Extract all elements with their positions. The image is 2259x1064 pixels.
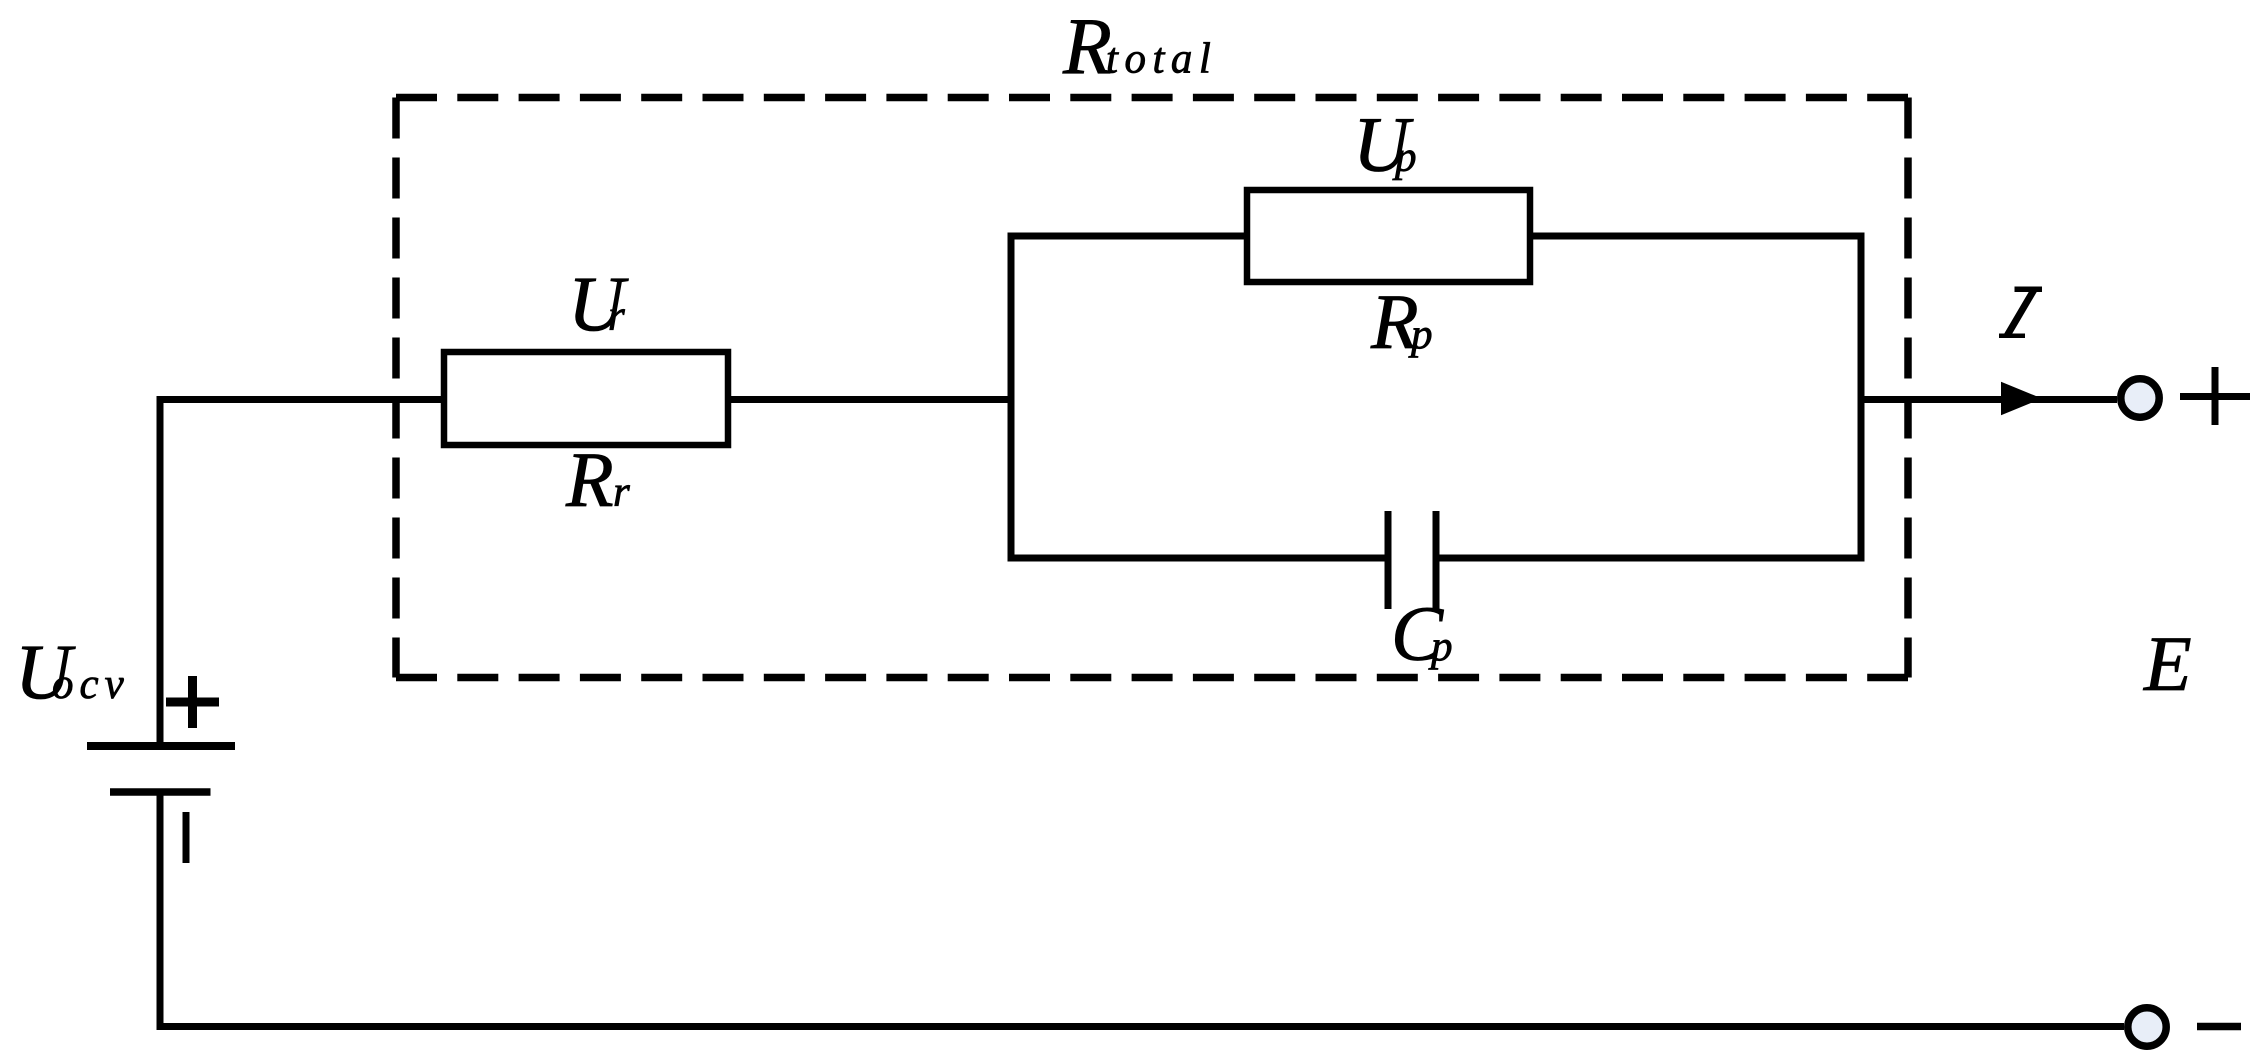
- label Up: [1353, 101, 1417, 188]
- svg-text:total: total: [1106, 36, 1217, 83]
- resistor Rr: [444, 352, 728, 445]
- RC loop left vertical wire: [1008, 233, 1015, 562]
- dashed box R_total top edge: [396, 94, 1908, 102]
- label I: [1999, 287, 2042, 339]
- svg-text:E: E: [2143, 620, 2192, 707]
- svg-text:p: p: [1408, 311, 1433, 358]
- RC loop right vertical wire: [1858, 233, 1865, 562]
- svg-text:r: r: [613, 469, 630, 516]
- current arrow I: [2001, 382, 2042, 415]
- dashed box R_total left edge: [392, 98, 400, 678]
- resistor Rp: [1247, 190, 1530, 282]
- svg-text:r: r: [608, 293, 625, 340]
- svg-text:R: R: [1062, 3, 1112, 91]
- svg-text:p: p: [1428, 623, 1453, 670]
- dashed box R_total bottom edge: [396, 674, 1908, 682]
- wire from battery to resistor Rr: [157, 396, 445, 403]
- output wire to positive terminal: [1861, 396, 2117, 403]
- svg-text:ocv: ocv: [52, 661, 130, 708]
- positive terminal node: [2121, 379, 2159, 417]
- battery left vertical wire upper: [157, 396, 164, 746]
- battery left vertical wire lower: [157, 792, 164, 1030]
- svg-text:p: p: [1392, 134, 1417, 181]
- label Rp: [1370, 278, 1433, 365]
- label Ur: [568, 260, 629, 347]
- svg-text:R: R: [565, 436, 614, 523]
- plus sign at positive terminal: [2180, 367, 2250, 425]
- RC loop bottom wire right segment: [1436, 555, 1861, 562]
- capacitor Cp left plate: [1385, 511, 1392, 609]
- minus sign at negative terminal: [2197, 1023, 2241, 1031]
- label Rr: [565, 436, 630, 523]
- bottom return wire: [157, 1023, 2125, 1030]
- capacitor Cp right plate: [1433, 511, 1440, 609]
- label Cp: [1391, 590, 1453, 677]
- RC loop top wire right segment: [1530, 233, 1861, 240]
- label Uocv: [15, 628, 130, 715]
- RC loop bottom wire left segment: [1011, 555, 1388, 562]
- RC loop top wire left segment: [1011, 233, 1247, 240]
- battery minus sign: [183, 812, 190, 863]
- battery positive plate: [87, 742, 235, 750]
- battery plus sign: [166, 676, 219, 728]
- negative terminal node: [2128, 1008, 2166, 1046]
- dashed box R_total right edge: [1904, 98, 1912, 678]
- label R_total: [1062, 3, 1217, 91]
- battery negative plate: [110, 788, 211, 796]
- wire from resistor Rr to RC loop: [728, 396, 1011, 403]
